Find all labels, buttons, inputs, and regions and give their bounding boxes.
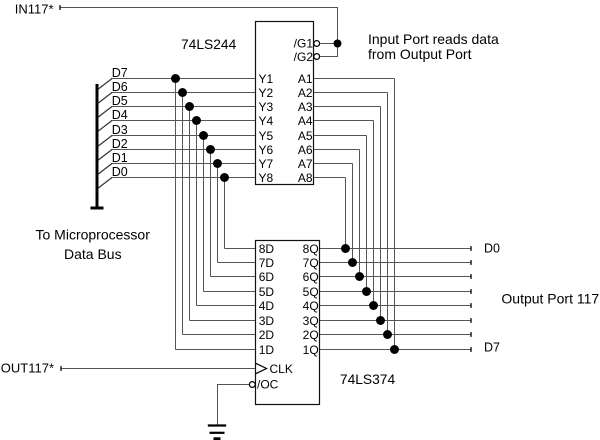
svg-text:6Q: 6Q: [303, 270, 319, 284]
svg-text:1Q: 1Q: [303, 343, 319, 357]
svg-text:D4: D4: [112, 108, 128, 122]
svg-text:A3: A3: [298, 100, 313, 114]
svg-text:4Q: 4Q: [303, 299, 319, 313]
svg-text:Y4: Y4: [259, 114, 274, 128]
svg-text:Output Port 117: Output Port 117: [501, 290, 599, 306]
svg-text:D2: D2: [112, 137, 128, 151]
svg-text:from Output Port: from Output Port: [368, 46, 472, 62]
svg-text:2Q: 2Q: [303, 328, 319, 342]
svg-text:A7: A7: [298, 157, 313, 171]
svg-text:8D: 8D: [259, 242, 275, 256]
svg-text:A8: A8: [298, 171, 313, 185]
svg-text:5Q: 5Q: [303, 285, 319, 299]
svg-text:Data Bus: Data Bus: [64, 246, 122, 262]
svg-text:D6: D6: [112, 80, 128, 94]
svg-text:D1: D1: [112, 151, 128, 165]
svg-text:Y1: Y1: [259, 72, 274, 86]
svg-text:D0: D0: [112, 165, 128, 179]
svg-text:D5: D5: [112, 94, 128, 108]
svg-text:74LS244: 74LS244: [181, 37, 237, 52]
svg-text:/G1: /G1: [294, 37, 314, 51]
svg-text:3Q: 3Q: [303, 314, 319, 328]
svg-text:3D: 3D: [259, 314, 275, 328]
svg-text:A4: A4: [298, 114, 313, 128]
svg-text:D7: D7: [484, 341, 500, 355]
svg-text:8Q: 8Q: [303, 242, 319, 256]
svg-text:/G2: /G2: [294, 50, 314, 64]
svg-text:6D: 6D: [259, 270, 275, 284]
svg-text:D0: D0: [484, 242, 500, 256]
svg-text:Y3: Y3: [259, 100, 274, 114]
svg-text:Y5: Y5: [259, 129, 274, 143]
svg-text:A1: A1: [298, 72, 313, 86]
svg-text:Y2: Y2: [259, 86, 274, 100]
svg-text:Input Port reads data: Input Port reads data: [368, 31, 499, 47]
svg-text:5D: 5D: [259, 285, 275, 299]
svg-text:A5: A5: [298, 129, 313, 143]
svg-text:7Q: 7Q: [303, 256, 319, 270]
svg-text:To Microprocessor: To Microprocessor: [36, 227, 151, 243]
svg-text:Y7: Y7: [259, 157, 274, 171]
svg-text:4D: 4D: [259, 299, 275, 313]
svg-text:1D: 1D: [259, 343, 275, 357]
svg-text:IN117*: IN117*: [15, 2, 54, 17]
svg-text:D3: D3: [112, 123, 128, 137]
svg-text:D7: D7: [112, 66, 128, 80]
svg-text:74LS374: 74LS374: [340, 372, 396, 387]
svg-text:Y8: Y8: [259, 171, 274, 185]
svg-text:2D: 2D: [259, 328, 275, 342]
svg-text:A2: A2: [298, 86, 313, 100]
svg-text:Y6: Y6: [259, 143, 274, 157]
svg-text:A6: A6: [298, 143, 313, 157]
svg-text:CLK: CLK: [270, 362, 293, 376]
svg-text:7D: 7D: [259, 256, 275, 270]
svg-text:/OC: /OC: [257, 378, 279, 392]
svg-text:OUT117*: OUT117*: [1, 361, 54, 376]
